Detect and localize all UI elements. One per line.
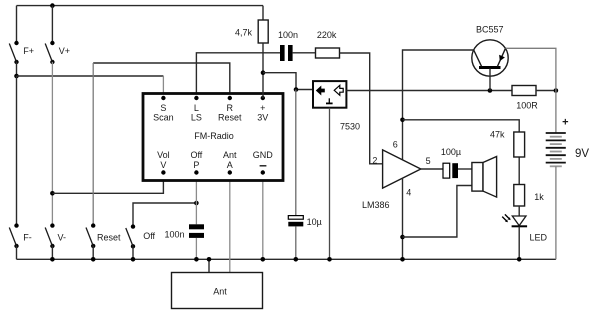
resistor R5 1k <box>514 185 544 207</box>
wire V+ vertical <box>51 6 53 43</box>
svg-text:LED: LED <box>530 232 548 242</box>
pin S <box>161 96 165 100</box>
node Off ground <box>131 257 136 262</box>
node pin4 speaker junction <box>400 235 405 240</box>
pin L <box>194 96 198 100</box>
wire battery minus to ground rail <box>555 166 557 259</box>
wire reset vertical <box>92 63 94 226</box>
wire R pin to reset top <box>93 63 230 98</box>
wire C2 to ground rail <box>295 226 297 259</box>
node F+ rail junction <box>14 74 19 79</box>
svg-text:+: + <box>562 116 568 128</box>
pin GND <box>261 170 265 174</box>
node U2 ground <box>327 257 332 262</box>
antenna box Ant <box>172 273 263 309</box>
pin A <box>228 170 232 174</box>
svg-text:F-: F- <box>23 233 32 243</box>
svg-text:LM386: LM386 <box>362 200 390 210</box>
switch V+ <box>45 41 70 64</box>
switch V- <box>45 223 66 248</box>
wire F- to ground rail <box>16 246 18 259</box>
node pin4 ground <box>400 257 405 262</box>
wire bottom ground rail <box>17 258 556 260</box>
svg-text:F+: F+ <box>23 46 34 56</box>
svg-text:7530: 7530 <box>340 122 360 132</box>
transistor Q1 BC557 <box>472 25 508 91</box>
battery BT1 9V <box>546 116 590 166</box>
wire Reset to ground rail <box>92 246 94 259</box>
svg-text:P: P <box>193 160 199 170</box>
IC U2 7530 <box>313 81 360 131</box>
wire Off branch to P line <box>133 203 196 227</box>
svg-text:GND: GND <box>253 150 274 160</box>
svg-text:9V: 9V <box>575 148 589 160</box>
wire ant box stub <box>208 259 210 272</box>
switch Reset <box>86 223 121 248</box>
wire 1k to LED <box>518 206 520 216</box>
node V- ground <box>50 257 55 262</box>
svg-text:V: V <box>160 160 166 170</box>
svg-text:V+: V+ <box>59 46 70 56</box>
wire U2 ground <box>329 108 331 259</box>
wire A pin vertical <box>229 173 231 273</box>
svg-text:100µ: 100µ <box>441 147 461 157</box>
pin P <box>194 170 198 174</box>
resistor R3 100R <box>512 86 538 111</box>
wire C1 to R2 <box>293 52 316 54</box>
pin V <box>161 170 165 174</box>
capacitor C1 100n <box>278 30 298 61</box>
resistor R4 47k <box>490 130 525 158</box>
switch F- <box>9 223 32 248</box>
node GND ground <box>261 257 266 262</box>
svg-text:Reset: Reset <box>218 112 242 122</box>
wire C4 to ground rail <box>195 238 197 259</box>
svg-text:6: 6 <box>393 140 398 150</box>
wire Q1 emitter <box>506 48 556 133</box>
node LED ground <box>517 257 522 262</box>
svg-text:2: 2 <box>372 156 377 166</box>
op-amp U1 LM386 <box>362 140 431 211</box>
wire Vol V pin line <box>52 173 163 194</box>
node 3V feed <box>261 70 266 75</box>
switch Off <box>126 224 156 248</box>
node V junction <box>50 191 55 196</box>
node top rail to V+ <box>50 3 55 8</box>
wire GND pin vertical <box>262 173 264 260</box>
wire 47k to 1k <box>518 157 520 185</box>
wire LED to ground rail <box>518 227 520 260</box>
IC FM-Radio box <box>143 94 283 181</box>
node Reset ground <box>91 257 96 262</box>
wire top supply rail <box>17 5 264 7</box>
svg-text:100n: 100n <box>165 229 185 239</box>
speaker LS1 <box>472 157 497 198</box>
wire 10u vertical <box>295 90 297 216</box>
wire op-amp output <box>421 168 443 170</box>
wire U2 output to Q1 base <box>346 90 511 92</box>
svg-text:3V: 3V <box>257 112 268 122</box>
wire speaker return <box>403 186 472 238</box>
capacitor C2 10u <box>288 216 322 227</box>
wire Off to ground rail <box>132 246 134 259</box>
svg-text:1k: 1k <box>534 192 544 202</box>
svg-text:Scan: Scan <box>153 112 174 122</box>
svg-text:47k: 47k <box>490 130 505 140</box>
wire scan rail to S pin <box>17 75 164 77</box>
resistor R2 220k <box>316 30 340 58</box>
node base junction <box>488 88 493 93</box>
wire pin4 to ground <box>402 178 404 259</box>
node P branch <box>194 201 199 206</box>
wire V+ bottom down to V- <box>51 62 53 226</box>
svg-text:Ant: Ant <box>213 287 227 297</box>
pin +3V <box>261 96 265 100</box>
wire S pin stub <box>162 76 164 97</box>
svg-text:A: A <box>227 160 233 170</box>
wire C3 to speaker <box>458 168 472 170</box>
wire L pin to C1 <box>196 53 280 98</box>
wire F+ bottom to rail <box>16 62 18 76</box>
wire left vertical F+ to F- <box>16 76 18 226</box>
svg-text:Ant: Ant <box>223 150 237 160</box>
wire V- to ground rail <box>51 246 53 259</box>
resistor R1 4,7k <box>235 6 268 98</box>
svg-text:100n: 100n <box>278 30 298 40</box>
svg-text:5: 5 <box>426 156 431 166</box>
svg-text:4: 4 <box>406 188 411 198</box>
svg-text:Reset: Reset <box>97 233 121 243</box>
pin R <box>228 96 232 100</box>
node C2 ground <box>294 257 299 262</box>
wire R3 to 9V <box>536 90 556 92</box>
node 47k branch <box>400 118 405 123</box>
wire 3V to U2 input <box>263 73 313 90</box>
wire R2 to op-amp pin 2 <box>340 53 383 164</box>
wire left vertical to F+ <box>16 6 18 43</box>
svg-text:LS: LS <box>191 112 202 122</box>
node C4 ground <box>194 257 199 262</box>
node ant stub ground <box>207 257 212 262</box>
svg-text:V-: V- <box>58 233 67 243</box>
svg-text:10µ: 10µ <box>307 217 322 227</box>
wire Q1 collector <box>403 50 474 160</box>
svg-text:4,7k: 4,7k <box>235 28 253 38</box>
node 10u branch <box>294 87 299 92</box>
wire P pin vertical <box>195 173 197 225</box>
svg-text:220k: 220k <box>317 30 337 40</box>
capacitor C3 100u <box>441 147 461 178</box>
svg-text:BC557: BC557 <box>476 25 504 35</box>
svg-text:Off: Off <box>143 231 155 241</box>
svg-text:Vol: Vol <box>157 150 170 160</box>
svg-text:FM-Radio: FM-Radio <box>194 131 234 141</box>
node emitter rail junction <box>554 88 559 93</box>
capacitor C4 100n <box>165 224 205 239</box>
LED D1 <box>502 214 547 242</box>
switch F+ <box>9 41 34 64</box>
svg-text:Off: Off <box>190 150 202 160</box>
wire 47k feed <box>403 120 520 132</box>
svg-text:100R: 100R <box>516 101 538 111</box>
